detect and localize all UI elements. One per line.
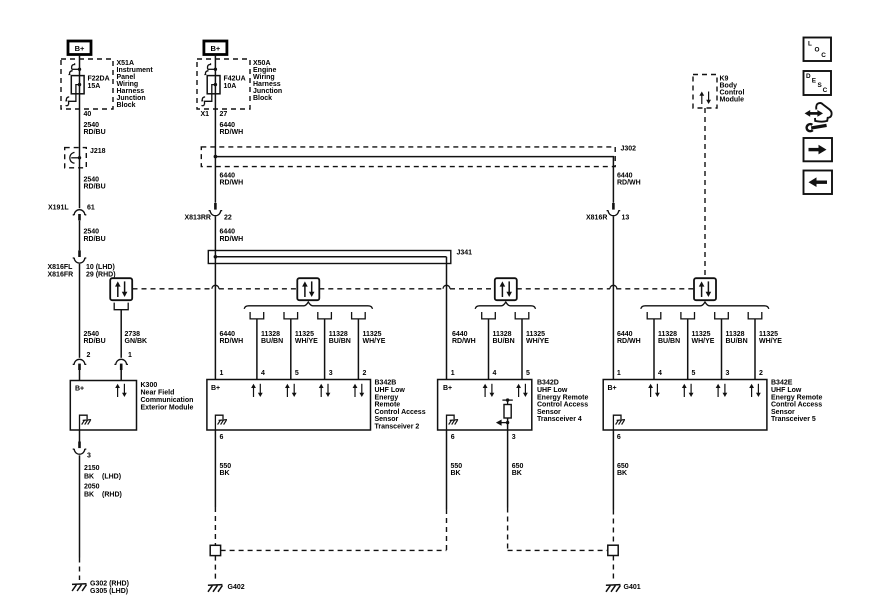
- svg-text:29 (RHD): 29 (RHD): [86, 271, 116, 278]
- connector terminal K300 pin 1: [114, 359, 128, 380]
- label wire 11325 WH/YE: [363, 331, 386, 345]
- label junction block X51A Instrument Panel Wiring Harness Junction Block: [117, 60, 154, 109]
- dashed wire splice to ground G402: [214, 556, 216, 580]
- antenna lead 11328 BU/BN to B342B pin 3: [318, 312, 332, 380]
- svg-text:L: L: [808, 40, 812, 47]
- label B342E pin 4: [658, 370, 662, 377]
- wire 6440 RD/WH inside J302 to right branch: [214, 155, 614, 167]
- svg-text:1: 1: [128, 352, 132, 359]
- svg-text:BK: BK: [512, 470, 522, 477]
- svg-text:BU/BN: BU/BN: [658, 338, 680, 345]
- antenna coupler of K300 (RF symbol): [110, 278, 132, 310]
- svg-text:G302 (RHD): G302 (RHD): [90, 580, 129, 587]
- inline connector X816FL / X816FR: [73, 250, 87, 263]
- label pin 22: [224, 214, 232, 221]
- svg-text:J218: J218: [90, 148, 106, 155]
- module B342E UHF Low Energy Remote Control Access Sensor Transceiver 5: [603, 380, 767, 431]
- svg-text:2: 2: [87, 352, 91, 359]
- svg-text:Control: Control: [720, 89, 745, 96]
- svg-text:Block: Block: [117, 102, 136, 109]
- label pin 1: [128, 352, 132, 359]
- svg-text:3: 3: [87, 453, 91, 460]
- svg-text:6: 6: [220, 434, 224, 441]
- svg-text:G402: G402: [228, 584, 245, 591]
- svg-text:61: 61: [87, 204, 95, 211]
- svg-text:(LHD): (LHD): [102, 474, 121, 481]
- connector terminal K300 pin 2: [73, 359, 87, 380]
- svg-text:650: 650: [617, 463, 629, 470]
- svg-text:11328: 11328: [493, 331, 512, 338]
- svg-text:Junction: Junction: [117, 95, 146, 102]
- svg-text:G305 (LHD): G305 (LHD): [90, 588, 128, 595]
- label B342E pin 6: [617, 434, 621, 441]
- svg-text:2: 2: [363, 370, 367, 377]
- ground wire 2150 BK / 2050 BK: [79, 455, 81, 580]
- ground splice block under B342E: [608, 545, 618, 555]
- svg-text:Module: Module: [720, 96, 745, 103]
- label B342D pin 6: [451, 434, 455, 441]
- svg-text:WH/YE: WH/YE: [692, 338, 715, 345]
- label K9 Body Control Module: [720, 75, 745, 103]
- label B342E pin 5: [692, 370, 696, 377]
- svg-text:22: 22: [224, 214, 232, 221]
- svg-text:550: 550: [451, 463, 463, 470]
- svg-text:27: 27: [220, 111, 228, 118]
- svg-text:Junction: Junction: [253, 88, 282, 95]
- power feed B+ (circuit 2, battery positive): [204, 41, 227, 55]
- ground G402: [208, 585, 223, 592]
- svg-text:BK: BK: [617, 470, 627, 477]
- svg-text:(RHD): (RHD): [102, 492, 122, 499]
- label wire 6440 RD/WH at B342B pin 1: [220, 331, 244, 345]
- svg-text:2540: 2540: [84, 331, 100, 338]
- junction block X50A (dashed boundary): [197, 59, 250, 109]
- svg-text:6440: 6440: [220, 172, 236, 179]
- svg-text:11328: 11328: [329, 331, 348, 338]
- antenna brace B342D: [475, 302, 535, 309]
- label wire 11328 BU/BN: [726, 331, 748, 345]
- svg-text:B+: B+: [211, 44, 221, 53]
- svg-text:B+: B+: [443, 385, 452, 392]
- label wire 11328 BU/BN: [329, 331, 351, 345]
- ground wire 550 BK from B342B: [214, 430, 216, 545]
- svg-text:5: 5: [526, 370, 530, 377]
- label B342D UHF Low Energy Remote Control Access Sensor Transceiver 4: [537, 380, 588, 424]
- svg-text:RD/WH: RD/WH: [617, 180, 641, 187]
- label B342D pin 4: [493, 370, 497, 377]
- svg-text:BK: BK: [451, 470, 461, 477]
- svg-text:E: E: [812, 77, 817, 84]
- svg-text:Transceiver 4: Transceiver 4: [537, 416, 582, 423]
- svg-text:B+: B+: [75, 386, 84, 393]
- svg-text:Block: Block: [253, 95, 272, 102]
- svg-text:BU/BN: BU/BN: [329, 338, 351, 345]
- antenna lead 11325 WH/YE to B342E pin 5: [681, 312, 695, 380]
- fuse F42UA 10A: [201, 63, 220, 106]
- svg-text:6: 6: [451, 434, 455, 441]
- ground wire 650 BK from B342E: [612, 430, 614, 545]
- svg-text:BU/BN: BU/BN: [261, 338, 283, 345]
- label wire 550 BK (B342B): [220, 463, 232, 477]
- label wire 11325 WH/YE: [692, 331, 715, 345]
- svg-text:B+: B+: [75, 44, 85, 53]
- svg-text:B+: B+: [211, 385, 220, 392]
- inline connector X191L pin 61: [73, 210, 87, 221]
- svg-text:X50A: X50A: [253, 60, 271, 67]
- antenna lead 11328 BU/BN to B342B pin 4: [250, 312, 264, 380]
- label wire 2150 BK (LHD) 2050 BK (RHD): [84, 465, 122, 499]
- svg-text:UHF Low: UHF Low: [537, 387, 568, 394]
- svg-text:X191L: X191L: [48, 204, 69, 211]
- svg-text:RD/BU: RD/BU: [84, 184, 106, 191]
- svg-text:11328: 11328: [261, 331, 280, 338]
- svg-text:K300: K300: [141, 382, 158, 389]
- svg-text:1: 1: [451, 370, 455, 377]
- wire B+ to fuse F22DA: [79, 55, 81, 209]
- label pin 2: [87, 352, 91, 359]
- svg-text:Engine: Engine: [253, 67, 276, 74]
- svg-text:2150: 2150: [84, 465, 100, 472]
- icon forward arrow button: [804, 138, 833, 161]
- svg-text:RD/WH: RD/WH: [220, 129, 244, 136]
- ground G401: [606, 585, 621, 592]
- svg-text:1: 1: [220, 370, 224, 377]
- svg-text:Harness: Harness: [117, 88, 145, 95]
- svg-text:C: C: [823, 87, 828, 94]
- ground wire 550 BK from B342D pin 6: [446, 430, 448, 550]
- label B342D pin 5: [526, 370, 530, 377]
- svg-text:X51A: X51A: [117, 60, 135, 67]
- svg-text:RD/WH: RD/WH: [220, 236, 244, 243]
- svg-text:B342E: B342E: [771, 380, 793, 387]
- svg-text:Sensor: Sensor: [537, 409, 561, 416]
- label X816FL X816FR: [48, 264, 74, 278]
- svg-text:Sensor: Sensor: [375, 416, 399, 423]
- svg-text:X1: X1: [201, 111, 210, 118]
- svg-text:11325: 11325: [692, 331, 711, 338]
- svg-text:WH/YE: WH/YE: [363, 338, 386, 345]
- label J218: [90, 148, 106, 155]
- junction block X51A (dashed boundary): [61, 59, 113, 109]
- label pin 13: [622, 214, 630, 221]
- label wire 2540 RD/BU (segment 2): [84, 176, 106, 190]
- label connector X1 pin 27: [201, 111, 228, 118]
- svg-text:1: 1: [617, 370, 621, 377]
- svg-text:G401: G401: [624, 584, 641, 591]
- svg-text:11328: 11328: [658, 331, 677, 338]
- svg-text:BK: BK: [84, 492, 94, 499]
- svg-text:BK: BK: [84, 474, 94, 481]
- svg-text:Body: Body: [720, 82, 738, 89]
- svg-text:6440: 6440: [220, 331, 236, 338]
- svg-text:6440: 6440: [617, 172, 633, 179]
- wire B+ to fuse F42UA: [214, 55, 216, 203]
- label G302 (RHD) G305 (LHD): [90, 580, 129, 595]
- svg-text:Communication: Communication: [141, 397, 194, 404]
- svg-text:6440: 6440: [220, 122, 236, 129]
- dashed ground link to B342D: [221, 549, 447, 551]
- label B342E pin 1: [617, 370, 621, 377]
- RF antenna dashed interconnect: [133, 285, 695, 289]
- icon back arrow button: [804, 171, 833, 195]
- label wire 2540 RD/BU (segment 4): [84, 331, 106, 345]
- label B342B pin 5: [295, 370, 299, 377]
- wire 2540 RD/BU between X191L and X816: [79, 221, 81, 251]
- module B342D UHF Low Energy Remote Control Access Sensor Transceiver 4: [438, 380, 532, 431]
- svg-text:2540: 2540: [84, 122, 100, 129]
- svg-text:6440: 6440: [452, 331, 468, 338]
- wire 2540 RD/BU to K300 pin 2: [79, 264, 81, 358]
- label B342D pin 1: [451, 370, 455, 377]
- label B342B pin 1: [220, 370, 224, 377]
- svg-text:Near Field: Near Field: [141, 389, 175, 396]
- svg-text:O: O: [815, 47, 820, 54]
- svg-text:Transceiver 5: Transceiver 5: [771, 416, 816, 423]
- svg-text:Energy Remote: Energy Remote: [537, 394, 588, 401]
- svg-text:Transceiver 2: Transceiver 2: [375, 423, 420, 430]
- label wire 550 BK (B342D): [451, 463, 463, 477]
- svg-text:WH/YE: WH/YE: [759, 338, 782, 345]
- label wire 2738 GN/BK: [125, 331, 148, 345]
- antenna lead 11328 BU/BN to B342D pin 4: [482, 312, 496, 380]
- svg-text:Harness: Harness: [253, 81, 281, 88]
- svg-text:6440: 6440: [220, 229, 236, 236]
- splice J218 (dashed box): [65, 148, 87, 168]
- svg-text:Exterior Module: Exterior Module: [141, 404, 194, 411]
- fuse F22DA 15A: [65, 63, 84, 106]
- svg-text:Wiring: Wiring: [253, 74, 275, 81]
- module K300 Near Field Communication Exterior Module: [70, 381, 136, 431]
- antenna element inside B342D (pin 3 driver): [496, 398, 513, 430]
- label fuse F22DA 15A: [88, 75, 110, 89]
- label junction block X50A Engine Wiring Harness Junction Block: [253, 60, 282, 102]
- svg-text:3: 3: [512, 434, 516, 441]
- svg-text:2738: 2738: [125, 331, 141, 338]
- antenna coupler at B342D (RF symbol): [495, 278, 517, 300]
- label wire 11328 BU/BN: [261, 331, 283, 345]
- label wire 11325 WH/YE: [295, 331, 318, 345]
- svg-text:RD/WH: RD/WH: [452, 338, 476, 345]
- svg-text:4: 4: [493, 370, 497, 377]
- antenna lead 11325 WH/YE to B342E pin 2: [748, 312, 762, 380]
- label G402: [228, 584, 245, 591]
- svg-text:5: 5: [692, 370, 696, 377]
- label wire 2540 RD/BU (segment 1): [84, 122, 106, 136]
- inline connector X816R pin 13: [607, 203, 621, 216]
- svg-text:J341: J341: [457, 250, 473, 257]
- antenna brace B342E: [641, 302, 769, 309]
- dashed ground link to G401 splice: [508, 549, 608, 551]
- icon DESC button: [804, 71, 832, 95]
- svg-text:Sensor: Sensor: [771, 409, 795, 416]
- wire 2738 GN/BK antenna lead to K300 pin 1: [120, 310, 122, 358]
- wire 6440 RD/WH from J341 to B342D pin 1: [446, 257, 448, 380]
- splice J302 (dashed box): [201, 147, 615, 167]
- svg-text:2540: 2540: [84, 176, 100, 183]
- svg-text:RD/BU: RD/BU: [84, 338, 106, 345]
- svg-text:Control Access: Control Access: [375, 409, 426, 416]
- antenna lead 11325 WH/YE to B342B pin 5: [284, 312, 298, 380]
- svg-text:Wiring: Wiring: [117, 81, 139, 88]
- antenna brace B342B: [244, 302, 372, 309]
- wire 6440 RD/WH to B342E pin 1: [612, 216, 614, 379]
- svg-text:X813RR: X813RR: [185, 214, 211, 221]
- wire 6440 RD/WH to B342B pin 1: [214, 216, 216, 379]
- label wire 6440 RD/WH (segment 1): [220, 122, 244, 136]
- label K300 Near Field Communication Exterior Module: [141, 382, 194, 411]
- svg-text:550: 550: [220, 463, 232, 470]
- svg-text:GN/BK: GN/BK: [125, 338, 148, 345]
- svg-text:13: 13: [622, 214, 630, 221]
- svg-text:Energy: Energy: [375, 394, 399, 401]
- svg-text:C: C: [821, 52, 826, 59]
- svg-text:X816FR: X816FR: [48, 271, 74, 278]
- svg-text:650: 650: [512, 463, 524, 470]
- icon LOC button: [804, 38, 832, 62]
- label B342B pin 6: [220, 434, 224, 441]
- label B342E pin 2: [759, 370, 763, 377]
- svg-text:RD/BU: RD/BU: [84, 129, 106, 136]
- svg-text:11325: 11325: [295, 331, 314, 338]
- svg-text:RD/WH: RD/WH: [220, 338, 244, 345]
- svg-text:X816R: X816R: [586, 214, 607, 221]
- label X816R: [586, 214, 607, 221]
- svg-text:Instrument: Instrument: [117, 67, 154, 74]
- svg-text:11325: 11325: [363, 331, 382, 338]
- label J302: [621, 146, 637, 153]
- svg-text:11325: 11325: [759, 331, 778, 338]
- label wire 650 BK (B342E): [617, 463, 629, 477]
- label B342E pin 3: [726, 370, 730, 377]
- svg-text:11328: 11328: [726, 331, 745, 338]
- label wire 6440 RD/WH (segment 2): [220, 172, 244, 186]
- svg-text:UHF Low: UHF Low: [375, 387, 406, 394]
- svg-text:5: 5: [295, 370, 299, 377]
- svg-text:Control Access: Control Access: [771, 402, 822, 409]
- svg-text:6: 6: [617, 434, 621, 441]
- label wire 6440 RD/WH at B342E: [617, 331, 641, 345]
- ground G302 / G305: [72, 584, 87, 591]
- svg-text:10 (LHD): 10 (LHD): [86, 264, 115, 271]
- antenna lead 11328 BU/BN to B342E pin 3: [715, 312, 729, 380]
- svg-text:Panel: Panel: [117, 74, 136, 81]
- antenna coupler at B342E (RF symbol): [694, 278, 716, 300]
- label wire 11328 BU/BN: [493, 331, 515, 345]
- label B342D pin 3 below box: [512, 434, 516, 441]
- svg-text:F22DA: F22DA: [88, 75, 110, 82]
- module K9 Body Control Module (dashed reference): [693, 75, 717, 109]
- svg-text:BU/BN: BU/BN: [726, 338, 748, 345]
- svg-text:B342B: B342B: [375, 380, 397, 387]
- label wire 6440 RD/WH at B342D: [452, 331, 476, 345]
- svg-text:6440: 6440: [617, 331, 633, 338]
- label X191L: [48, 204, 69, 211]
- wire 6440 RD/WH right branch of J302: [612, 167, 614, 203]
- pin 40 of X51A: [84, 111, 92, 118]
- svg-text:BK: BK: [220, 470, 230, 477]
- icon diagnostic tool (arrow, vehicle, wrench): [805, 103, 832, 131]
- svg-text:RD/WH: RD/WH: [617, 338, 641, 345]
- antenna lead 11325 WH/YE to B342B pin 2: [352, 312, 366, 380]
- label wire 6440 RD/WH (right branch): [617, 172, 641, 186]
- label J341: [457, 250, 473, 257]
- svg-text:BU/BN: BU/BN: [493, 338, 515, 345]
- label wire 11325 WH/YE: [759, 331, 782, 345]
- dashed RF lead from K9 to antenna coupler: [704, 108, 706, 278]
- svg-text:WH/YE: WH/YE: [295, 338, 318, 345]
- label wire 2540 RD/BU (segment 3): [84, 229, 106, 243]
- svg-text:15A: 15A: [88, 83, 101, 90]
- label wire 11325 WH/YE: [526, 331, 549, 345]
- label pins 10 (LHD) 29 (RHD): [86, 264, 116, 278]
- svg-text:J302: J302: [621, 146, 637, 153]
- ground wire 650 BK from B342D pin 3: [507, 430, 509, 550]
- label wire 650 BK (B342D): [512, 463, 524, 477]
- svg-text:3: 3: [329, 370, 333, 377]
- label pin 61: [87, 204, 95, 211]
- dashed wire splice to ground G401: [612, 556, 614, 581]
- svg-text:4: 4: [658, 370, 662, 377]
- svg-text:WH/YE: WH/YE: [526, 338, 549, 345]
- label fuse F42UA 10A: [224, 75, 246, 89]
- label B342B pin 2: [363, 370, 367, 377]
- svg-text:40: 40: [84, 111, 92, 118]
- antenna lead 11325 WH/YE to B342D pin 5: [515, 312, 529, 380]
- connector terminal K300 pin 3: [73, 430, 87, 454]
- module B342B UHF Low Energy Remote Control Access Sensor Transceiver 2: [207, 380, 371, 431]
- svg-text:Control Access: Control Access: [537, 402, 588, 409]
- label B342B pin 4: [261, 370, 265, 377]
- antenna coupler at B342B (RF symbol): [297, 278, 319, 300]
- label wire 11328 BU/BN: [658, 331, 680, 345]
- svg-text:2050: 2050: [84, 483, 100, 490]
- svg-text:B+: B+: [608, 385, 617, 392]
- svg-text:B342D: B342D: [537, 380, 559, 387]
- svg-text:10A: 10A: [224, 83, 237, 90]
- inline connector X813RR pin 22: [209, 203, 223, 216]
- label wire 6440 RD/WH (segment 3): [220, 229, 244, 243]
- svg-text:Energy Remote: Energy Remote: [771, 394, 822, 401]
- ground splice block under B342B: [210, 545, 220, 555]
- splice J341 (bus bar): [208, 251, 450, 264]
- label X813RR: [185, 214, 211, 221]
- label G401: [624, 584, 641, 591]
- svg-text:F42UA: F42UA: [224, 75, 246, 82]
- svg-text:RD/BU: RD/BU: [84, 236, 106, 243]
- svg-text:3: 3: [726, 370, 730, 377]
- svg-text:UHF Low: UHF Low: [771, 387, 802, 394]
- power feed B+ (circuit 1, battery positive): [68, 41, 91, 55]
- label pin 3: [87, 453, 91, 460]
- svg-text:2540: 2540: [84, 229, 100, 236]
- svg-text:K9: K9: [720, 75, 729, 82]
- svg-text:4: 4: [261, 370, 265, 377]
- label B342E UHF Low Energy Remote Control Access Sensor Transceiver 5: [771, 380, 822, 424]
- svg-text:11325: 11325: [526, 331, 545, 338]
- label B342B UHF Low Energy Remote Control Access Sensor Transceiver 2: [375, 380, 426, 431]
- svg-text:Remote: Remote: [375, 402, 401, 409]
- antenna lead 11328 BU/BN to B342E pin 4: [647, 312, 661, 380]
- svg-text:RD/WH: RD/WH: [220, 180, 244, 187]
- svg-text:2: 2: [759, 370, 763, 377]
- svg-text:D: D: [806, 73, 811, 80]
- label B342B pin 3: [329, 370, 333, 377]
- svg-text:X816FL: X816FL: [48, 264, 74, 271]
